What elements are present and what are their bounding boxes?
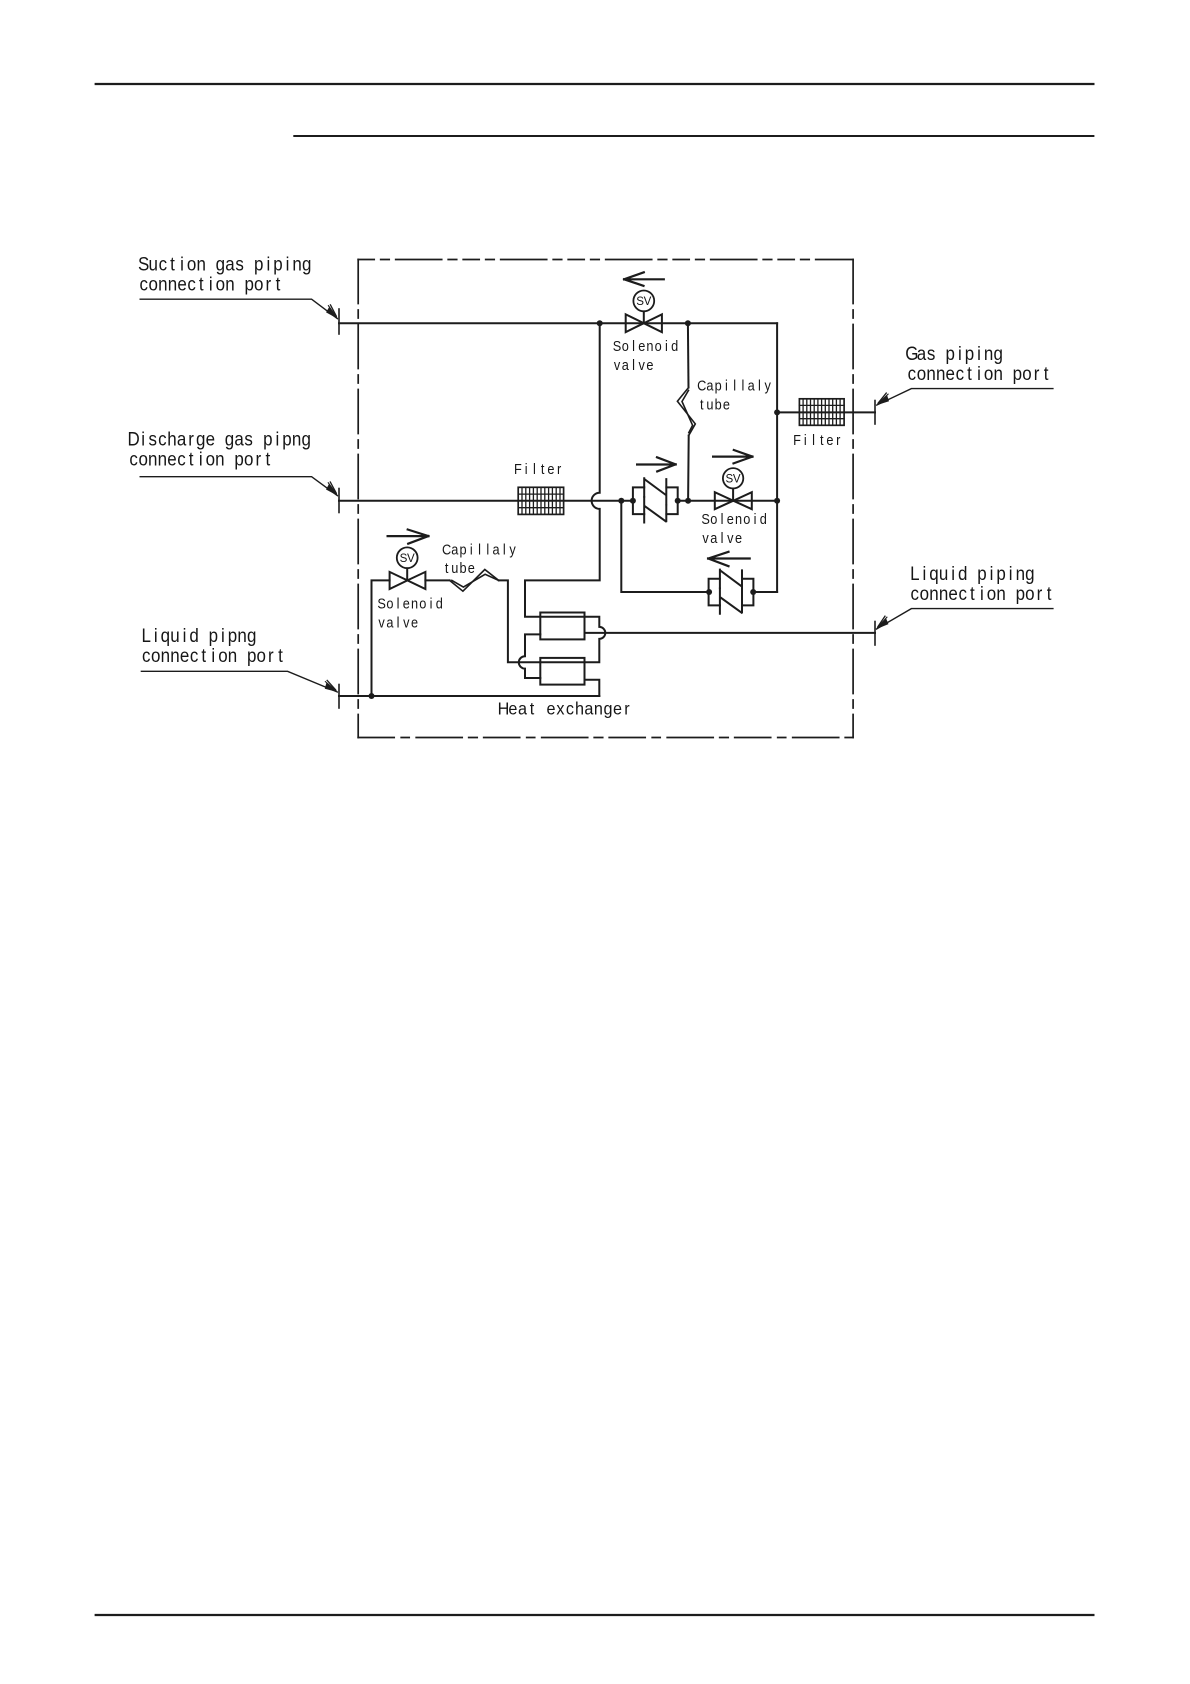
svg-text:connectionport: connectionport xyxy=(911,582,1052,604)
wire heat exchanger shell connector left xyxy=(519,634,541,678)
svg-text:Filter: Filter xyxy=(793,431,841,448)
svg-text:SV: SV xyxy=(636,295,651,308)
svg-text:valve: valve xyxy=(614,356,654,373)
svg-text:SV: SV xyxy=(726,473,741,486)
arrow above SV3 flow right xyxy=(388,530,429,544)
wire capillary C1 drop upper xyxy=(687,323,690,387)
wire bypass loop right xyxy=(754,591,777,593)
port tick liquid left xyxy=(338,685,340,709)
arrow above CV1 flow right xyxy=(637,457,676,471)
wire capillary C1 drop lower xyxy=(687,436,690,501)
wire liquid bottom line xyxy=(339,695,599,697)
svg-text:connectionport: connectionport xyxy=(142,644,283,666)
check valve CV1 on discharge line xyxy=(633,478,678,522)
heat exchanger coil lower xyxy=(540,658,584,685)
capillary tube C1 zigzag xyxy=(677,388,695,436)
junction dots xyxy=(369,320,781,699)
arrow above CV2 flow left xyxy=(708,552,750,566)
svg-text:Solenoid: Solenoid xyxy=(377,595,442,612)
heat exchanger coil upper xyxy=(540,613,584,640)
unit boundary dash-dot box xyxy=(358,260,853,738)
check valve CV2 on bypass loop xyxy=(709,570,754,614)
leader liquid right port xyxy=(873,609,1053,631)
port tick gas right xyxy=(874,401,876,425)
svg-text:tube: tube xyxy=(700,396,730,413)
svg-text:Solenoid: Solenoid xyxy=(701,510,766,527)
wire solenoid valve SV3 branch xyxy=(372,580,390,696)
svg-text:Solenoid: Solenoid xyxy=(613,337,678,354)
filter F2 on gas piping line xyxy=(799,399,844,426)
wire suction tap down with hop, to heat exchanger coil feed xyxy=(499,323,606,662)
arrow above SV1 flow left xyxy=(624,272,664,286)
wire liquid out line xyxy=(585,632,876,634)
svg-text:valve: valve xyxy=(378,614,418,631)
wire suction line xyxy=(339,322,777,324)
svg-text:tube: tube xyxy=(445,559,475,576)
svg-text:connectionport: connectionport xyxy=(139,273,280,295)
wire right vertical suction-to-bypass xyxy=(776,323,778,592)
leader gas port xyxy=(874,389,1053,407)
svg-text:Capillaly: Capillaly xyxy=(697,377,771,394)
wire bypass drop and loop left xyxy=(621,501,708,592)
wire discharge line right xyxy=(678,500,777,502)
port tick discharge xyxy=(338,489,340,513)
wire gas piping line xyxy=(777,411,875,413)
wire heat exchanger shell exit xyxy=(585,680,600,696)
port tick suction xyxy=(338,309,340,334)
solenoid valve SV3 body xyxy=(390,547,426,589)
leader discharge port xyxy=(140,477,341,497)
header rule second xyxy=(294,135,1093,137)
solenoid valve SV1 body xyxy=(626,291,662,333)
wire discharge line left xyxy=(339,500,633,502)
wire SV3 to capillary C2 xyxy=(425,579,449,581)
svg-text:connectionport: connectionport xyxy=(908,362,1049,384)
svg-text:Capillaly: Capillaly xyxy=(442,540,516,557)
svg-text:connectionport: connectionport xyxy=(129,447,270,469)
solenoid valve SV2 body xyxy=(715,468,752,509)
footer rule xyxy=(96,1614,1094,1616)
svg-text:Heatexchanger: Heatexchanger xyxy=(498,699,630,719)
leader suction port xyxy=(140,299,341,320)
leader liquid left port xyxy=(141,671,340,693)
header rule top xyxy=(96,83,1094,85)
port tick liquid right xyxy=(874,622,876,646)
svg-text:Filter: Filter xyxy=(514,460,562,477)
capillary tube C2 zigzag xyxy=(450,570,499,592)
svg-text:SV: SV xyxy=(400,552,415,565)
arrow above SV2 flow right xyxy=(713,450,752,463)
svg-text:valve: valve xyxy=(702,529,742,546)
filter F1 on discharge line xyxy=(518,487,563,514)
